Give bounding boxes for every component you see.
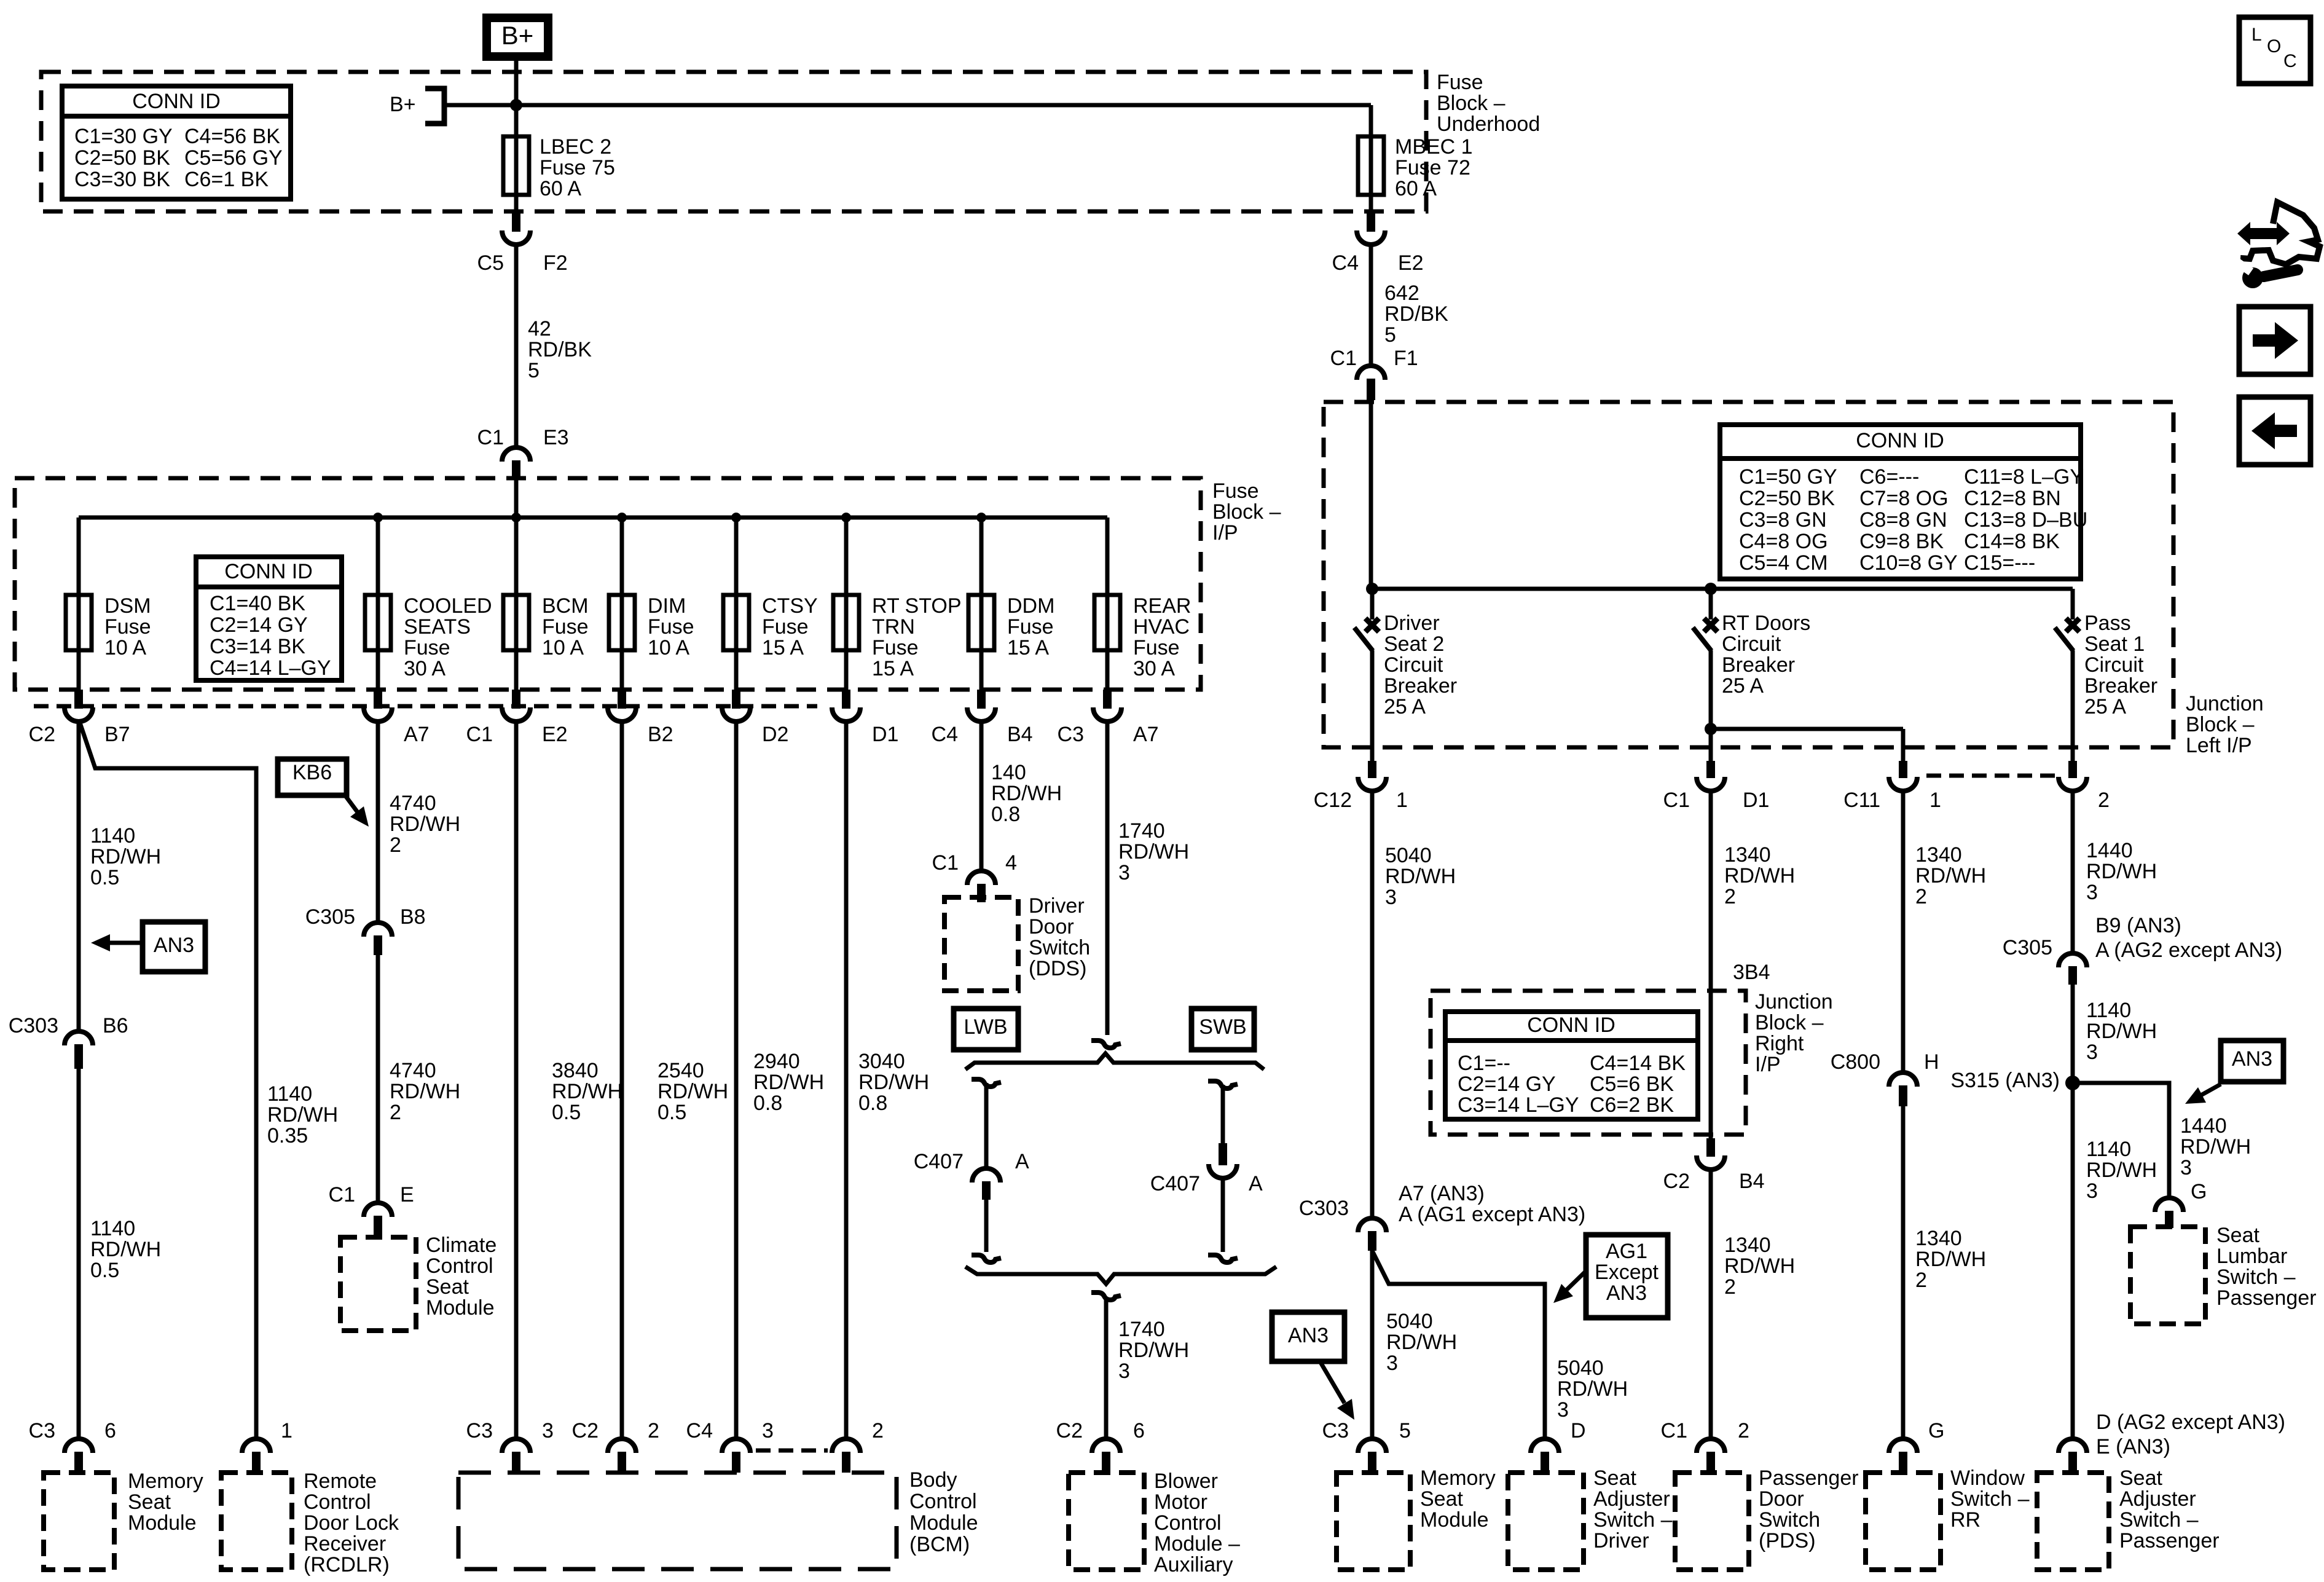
svg-text:2: 2 (872, 1419, 884, 1442)
svg-text:CONN ID: CONN ID (224, 560, 313, 583)
connector C3/5 (memory seat module) (1358, 1439, 1386, 1453)
svg-text:Circuit: Circuit (2084, 653, 2144, 677)
svg-text:Fuse: Fuse (648, 615, 694, 639)
svg-text:Fuse: Fuse (872, 636, 919, 659)
svg-text:2540: 2540 (658, 1059, 704, 1082)
svg-text:Driver: Driver (1593, 1529, 1649, 1552)
svg-text:D2: D2 (762, 723, 788, 746)
svg-text:2: 2 (1724, 885, 1736, 908)
svg-text:I/P: I/P (1755, 1053, 1781, 1076)
svg-text:RR: RR (1950, 1508, 1981, 1532)
connector C5/F2 (502, 230, 530, 245)
svg-text:Door Lock: Door Lock (304, 1511, 399, 1535)
connector C407/A (SWB) (1209, 1164, 1237, 1178)
svg-text:DIM: DIM (648, 594, 686, 618)
svg-text:5040: 5040 (1557, 1356, 1604, 1380)
body/door repair icon with double arrow and wrench (2240, 202, 2320, 264)
wire 1140 RD/WH 3 (2071, 985, 2075, 1083)
wire 3040 RD/WH 0.8 (844, 722, 849, 1439)
Memory Seat Module box (44, 1473, 114, 1570)
connector C303 (A7/A) (1358, 1218, 1386, 1232)
svg-text:Seat: Seat (128, 1490, 171, 1514)
svg-text:1140: 1140 (90, 824, 135, 848)
KB6 arrow (344, 794, 360, 816)
svg-text:Junction: Junction (2186, 692, 2264, 715)
svg-text:4: 4 (1005, 851, 1017, 875)
svg-text:CONN ID: CONN ID (1527, 1013, 1615, 1037)
CONN ID table (Fuse Block - Underhood) (62, 86, 291, 199)
wire 1440 RD/WH 3 (2071, 790, 2075, 954)
svg-text:C1: C1 (1663, 789, 1690, 812)
svg-text:140: 140 (991, 761, 1026, 784)
svg-text:15 A: 15 A (762, 636, 804, 659)
svg-text:C4=14 L–GY: C4=14 L–GY (210, 656, 331, 680)
svg-text:CONN ID: CONN ID (1856, 429, 1944, 452)
svg-text:H: H (1924, 1050, 1939, 1074)
SWB option box (1191, 1009, 1254, 1050)
svg-text:SEATS: SEATS (404, 615, 471, 639)
junction B+/LBEC (510, 99, 522, 111)
LWB merge hook (972, 1255, 1001, 1262)
svg-text:Pass: Pass (2084, 612, 2131, 635)
Fuse Block - I/P dashed box (15, 478, 1201, 690)
svg-text:LWB: LWB (964, 1015, 1007, 1039)
svg-text:C: C (2283, 51, 2297, 71)
fuse block I/P output connector E2 (502, 707, 530, 722)
option split brace (965, 1053, 1264, 1069)
svg-text:E (AN3): E (AN3) (2096, 1435, 2170, 1458)
option merge brace (965, 1267, 1276, 1284)
connector C3/3 (BCM) (502, 1439, 530, 1453)
wire 2540 RD/WH 0.5 (620, 722, 624, 1439)
wire 1740 RD/WH 3 (to blower) (1104, 1298, 1109, 1439)
svg-text:Breaker: Breaker (1722, 653, 1795, 677)
LWB branch hook (972, 1079, 1001, 1087)
svg-text:S315 (AN3): S315 (AN3) (1950, 1069, 2060, 1092)
fuse MBEC 1 (Fuse 72, 60 A) (1358, 136, 1384, 195)
svg-text:RT STOP: RT STOP (872, 594, 962, 618)
svg-text:Passenger: Passenger (2119, 1529, 2220, 1552)
svg-text:60 A: 60 A (540, 177, 581, 200)
svg-text:G: G (2191, 1180, 2207, 1203)
branch to seat lumbar switch (2073, 1083, 2169, 1198)
BCM connector face dashed line (756, 1449, 828, 1453)
Seat Adjuster Switch - Driver box (1508, 1473, 1584, 1570)
SWB branch hook (1208, 1081, 1238, 1088)
fuse LBEC 2 (Fuse 75, 60 A) (503, 136, 529, 195)
svg-text:Door: Door (1029, 915, 1074, 939)
svg-text:I/P: I/P (1212, 521, 1238, 545)
svg-text:RD/WH: RD/WH (858, 1071, 929, 1094)
fuse block I/P output connector D2 (722, 707, 750, 722)
Blower Motor Control Module - Auxiliary box (1069, 1473, 1144, 1570)
svg-text:Seat: Seat (2119, 1466, 2162, 1490)
svg-text:C2: C2 (1663, 1170, 1690, 1193)
wire 1340 RD/WH 2 (lower, PDS) (1709, 1170, 1713, 1439)
Pass Seat 1 Circuit Breaker 25 A (2066, 618, 2079, 632)
svg-text:2: 2 (1724, 1275, 1736, 1299)
svg-text:Fuse: Fuse (1437, 71, 1483, 94)
svg-text:B+: B+ (501, 21, 534, 50)
connector face dashed line (I/P) (34, 704, 817, 709)
svg-text:AN3: AN3 (1606, 1281, 1647, 1305)
wire 642 RD/BK 5 (1369, 243, 1373, 368)
svg-text:Seat: Seat (2216, 1224, 2259, 1247)
svg-text:1340: 1340 (1724, 1234, 1771, 1257)
svg-text:BCM: BCM (542, 594, 589, 618)
svg-text:Switch –: Switch – (2216, 1265, 2296, 1289)
Body Control Module box (458, 1473, 897, 1569)
junction block feed bus (1372, 587, 2073, 591)
svg-text:3: 3 (1118, 1360, 1130, 1383)
svg-text:30 A: 30 A (404, 657, 446, 680)
connector C4/3 (BCM) (722, 1439, 750, 1453)
svg-text:RD/WH: RD/WH (552, 1080, 622, 1103)
AN3 arrow (106, 941, 143, 945)
connector C1/2 (PDS) (1697, 1439, 1725, 1453)
svg-text:5: 5 (1399, 1419, 1411, 1442)
svg-text:Junction: Junction (1755, 990, 1833, 1013)
svg-text:2: 2 (390, 1101, 401, 1124)
fuse block I/P output connector B4 (967, 707, 995, 722)
fuse DDM branch (979, 517, 984, 595)
svg-text:B8: B8 (400, 905, 426, 929)
svg-text:15 A: 15 A (872, 657, 914, 680)
svg-text:Fuse: Fuse (1133, 636, 1180, 659)
svg-text:B2: B2 (648, 723, 673, 746)
svg-text:RD/BK: RD/BK (1384, 302, 1448, 326)
wire 5040 RD/WH 3 (1370, 790, 1375, 1218)
svg-text:3040: 3040 (858, 1050, 905, 1073)
svg-text:5040: 5040 (1385, 844, 1432, 867)
svg-text:E2: E2 (1398, 251, 1424, 275)
svg-text:RD/WH: RD/WH (658, 1080, 728, 1103)
svg-text:Control: Control (304, 1490, 371, 1514)
svg-text:1440: 1440 (2086, 839, 2133, 862)
fuse BCM branch (514, 517, 519, 595)
fuse REAR branch (1105, 517, 1110, 595)
svg-text:Underhood: Underhood (1437, 112, 1540, 136)
CONN ID table (Fuse Block - I/P) (196, 557, 342, 680)
fuse COOLED branch (376, 517, 380, 595)
wire 1340 RD/WH 2 (window switch) (1901, 790, 1906, 1074)
svg-text:RD/WH: RD/WH (390, 813, 460, 836)
wire 1340 RD/WH 2 (lower, window switch) (1901, 1106, 1906, 1439)
RT Doors output junction (1705, 723, 1717, 735)
junction block connector face dashed line (1926, 774, 2057, 778)
AN3 arrow (1320, 1361, 1345, 1403)
svg-text:2: 2 (1915, 1269, 1927, 1292)
svg-text:Seat: Seat (426, 1275, 469, 1299)
svg-text:Switch –: Switch – (1950, 1487, 2030, 1511)
svg-text:3: 3 (1385, 886, 1397, 909)
svg-text:Circuit: Circuit (1384, 653, 1443, 677)
Remote Control Door Lock Receiver box (221, 1473, 292, 1570)
svg-text:642: 642 (1384, 281, 1419, 305)
fuse block I/P output connector D1 (832, 707, 860, 722)
svg-text:42: 42 (528, 317, 551, 340)
SWB branch wire (1221, 1085, 1225, 1151)
svg-text:COOLED: COOLED (404, 594, 492, 618)
svg-text:DDM: DDM (1007, 594, 1054, 618)
connector D/E (seat adjuster passenger) (2059, 1439, 2087, 1453)
connector C2/2 (BCM) (608, 1439, 636, 1453)
connector D (seat adjuster switch driver) (1531, 1439, 1559, 1453)
svg-text:A (AG2 except AN3): A (AG2 except AN3) (2095, 939, 2282, 962)
svg-text:Left I/P: Left I/P (2186, 734, 2252, 757)
svg-text:C2=50 BK: C2=50 BK (1739, 487, 1835, 510)
svg-text:B4: B4 (1007, 723, 1033, 746)
svg-text:C3=8 GN: C3=8 GN (1739, 508, 1827, 532)
svg-text:Driver: Driver (1384, 612, 1440, 635)
svg-text:C4: C4 (932, 723, 958, 746)
svg-text:5040: 5040 (1386, 1310, 1433, 1333)
svg-text:0.5: 0.5 (90, 866, 119, 889)
merge squiggle (1091, 1293, 1121, 1300)
connector C1/D1 (1697, 777, 1725, 791)
svg-text:C2=50 BK: C2=50 BK (74, 146, 170, 170)
connector C11/1 (1889, 777, 1917, 791)
svg-text:1340: 1340 (1724, 843, 1771, 867)
RT Doors Circuit Breaker 25 A (1704, 618, 1717, 632)
connector C1/E3 (502, 447, 530, 462)
fuse RT STOP branch (844, 517, 849, 595)
svg-text:RD/WH: RD/WH (991, 782, 1062, 805)
svg-text:0.5: 0.5 (90, 1259, 119, 1282)
svg-text:0.8: 0.8 (753, 1092, 782, 1115)
svg-text:RD/WH: RD/WH (90, 845, 161, 868)
svg-text:Motor: Motor (1154, 1490, 1207, 1514)
svg-text:C12=8 BN: C12=8 BN (1964, 487, 2061, 510)
svg-text:C3=14 BK: C3=14 BK (210, 635, 305, 658)
connector 2 (BCM) (832, 1439, 860, 1453)
svg-text:C3=14 L–GY: C3=14 L–GY (1458, 1093, 1579, 1117)
connector C1/F1 (1357, 366, 1385, 380)
fuse block I/P output connector A7 (1093, 707, 1121, 722)
fuse DSM branch (77, 517, 81, 595)
connector C407/A (LWB) (972, 1168, 1000, 1183)
svg-text:L: L (2251, 25, 2262, 45)
svg-text:A7 (AN3): A7 (AN3) (1399, 1182, 1485, 1205)
Memory Seat Module box (right) (1337, 1473, 1410, 1570)
svg-text:Fuse 72: Fuse 72 (1395, 156, 1470, 179)
svg-text:RD/WH: RD/WH (1118, 840, 1189, 864)
wire 4740 RD/WH 2 (lower) (376, 954, 380, 1204)
SWB merge hook (1208, 1255, 1238, 1262)
svg-text:A7: A7 (404, 723, 430, 746)
connector 2 (pass seat branch) (2059, 777, 2087, 791)
svg-text:Fuse: Fuse (762, 615, 809, 639)
svg-text:B4: B4 (1739, 1170, 1765, 1193)
svg-text:1340: 1340 (1915, 1227, 1962, 1250)
svg-text:C1=30 GY: C1=30 GY (74, 125, 173, 148)
svg-text:RD/WH: RD/WH (1386, 1331, 1457, 1354)
svg-text:1340: 1340 (1915, 843, 1962, 867)
svg-text:Fuse: Fuse (1007, 615, 1054, 639)
connector C4/E2 (1357, 230, 1385, 245)
CONN ID table (Junction Block - Left I/P) (1720, 425, 2081, 579)
B+ bracket node (425, 89, 444, 124)
svg-text:Module: Module (426, 1296, 495, 1320)
svg-text:3: 3 (1118, 861, 1130, 884)
svg-text:F1: F1 (1394, 347, 1418, 370)
svg-text:C2=14 GY: C2=14 GY (210, 613, 308, 637)
svg-text:RD/WH: RD/WH (1915, 1248, 1986, 1271)
svg-text:60 A: 60 A (1395, 177, 1437, 200)
wire 1140 RD/WH 0.5 (DSM to C303) (77, 722, 81, 1033)
LWB branch wire (984, 1083, 989, 1170)
svg-text:2940: 2940 (753, 1050, 800, 1073)
svg-text:4740: 4740 (390, 1059, 436, 1082)
fuse CTSY branch (734, 517, 739, 595)
fuse block I/P output connector B7 (65, 707, 93, 722)
svg-text:1: 1 (1929, 789, 1941, 812)
I/P feed bus (79, 516, 1107, 520)
svg-text:C5=56 GY: C5=56 GY (184, 146, 283, 170)
svg-text:Circuit: Circuit (1722, 632, 1781, 656)
svg-text:Fuse: Fuse (104, 615, 151, 639)
svg-text:AG1: AG1 (1606, 1240, 1647, 1263)
option split squiggle (1091, 1041, 1121, 1048)
svg-text:Memory: Memory (128, 1470, 203, 1493)
svg-text:C2: C2 (29, 723, 55, 746)
svg-text:D (AG2 except AN3): D (AG2 except AN3) (2096, 1411, 2285, 1434)
svg-text:Adjuster: Adjuster (1593, 1487, 1670, 1511)
svg-text:Block –: Block – (1212, 500, 1281, 524)
svg-text:C11: C11 (1843, 789, 1880, 812)
svg-text:C4=56 BK: C4=56 BK (184, 125, 280, 148)
svg-text:RT Doors: RT Doors (1722, 612, 1810, 635)
svg-text:Receiver: Receiver (304, 1532, 386, 1556)
svg-text:Window: Window (1950, 1466, 2025, 1490)
AG1 Except AN3 reference box (1586, 1235, 1668, 1318)
svg-text:F2: F2 (543, 251, 568, 275)
svg-text:2: 2 (1915, 885, 1927, 908)
svg-text:1140: 1140 (90, 1217, 135, 1240)
wire 42 RD/BK 5 (514, 243, 519, 449)
svg-text:RD/WH: RD/WH (267, 1103, 338, 1127)
svg-text:G: G (1928, 1419, 1944, 1442)
bus junction (617, 513, 627, 522)
svg-text:RD/WH: RD/WH (1724, 1254, 1795, 1278)
svg-text:C3: C3 (466, 1419, 493, 1442)
svg-text:2: 2 (2098, 789, 2110, 812)
wire 1740 RD/WH 3 (1105, 722, 1110, 1035)
svg-text:Passenger: Passenger (1759, 1466, 1859, 1490)
wire 140 RD/WH 0.8 (979, 722, 984, 872)
svg-text:C5: C5 (477, 251, 504, 275)
svg-text:C1: C1 (1661, 1419, 1687, 1442)
svg-text:2: 2 (1738, 1419, 1749, 1442)
bus junction (841, 513, 851, 522)
svg-text:Auxiliary: Auxiliary (1154, 1553, 1233, 1576)
svg-text:C5=4 CM: C5=4 CM (1739, 551, 1828, 575)
svg-text:Seat 2: Seat 2 (1384, 632, 1444, 656)
connector C800/H (1889, 1072, 1917, 1087)
svg-text:Memory: Memory (1420, 1466, 1496, 1490)
svg-text:3840: 3840 (552, 1059, 599, 1082)
svg-text:C3=30 BK: C3=30 BK (74, 168, 170, 191)
svg-text:Control: Control (426, 1254, 493, 1278)
bus junction (976, 513, 986, 522)
svg-text:A7: A7 (1133, 723, 1159, 746)
bus junction (731, 513, 741, 522)
svg-text:C7=8 OG: C7=8 OG (1859, 487, 1949, 510)
svg-text:RD/WH: RD/WH (1118, 1339, 1189, 1362)
fuse block I/P output connector A7 (364, 707, 392, 722)
AN3 reference box (1272, 1312, 1345, 1361)
svg-text:Fuse: Fuse (1212, 479, 1259, 503)
svg-text:DSM: DSM (104, 594, 151, 618)
svg-text:Fuse: Fuse (542, 615, 589, 639)
svg-text:1440: 1440 (2180, 1114, 2227, 1138)
svg-text:Control: Control (1154, 1511, 1222, 1535)
connector 1 (RCDLR) (242, 1439, 270, 1453)
svg-text:3: 3 (762, 1419, 774, 1442)
svg-text:Module: Module (128, 1511, 197, 1535)
svg-text:Seat: Seat (1420, 1487, 1463, 1511)
svg-text:0.8: 0.8 (991, 803, 1020, 826)
svg-text:C6=2 BK: C6=2 BK (1590, 1093, 1674, 1117)
svg-text:C4: C4 (686, 1419, 713, 1442)
svg-text:3: 3 (2180, 1156, 2192, 1179)
svg-text:MBEC 1: MBEC 1 (1395, 135, 1473, 159)
svg-text:C407: C407 (914, 1150, 964, 1173)
AG1 arrow (1566, 1271, 1586, 1291)
svg-text:Switch –: Switch – (1593, 1508, 1673, 1532)
svg-text:4740: 4740 (390, 792, 436, 815)
svg-text:C1: C1 (329, 1183, 355, 1206)
svg-text:3: 3 (542, 1419, 554, 1442)
svg-text:RD/WH: RD/WH (753, 1071, 824, 1094)
svg-text:0.8: 0.8 (858, 1092, 887, 1115)
Seat Lumbar Switch - Passenger box (2130, 1227, 2205, 1324)
connector C12/1 (1358, 777, 1386, 791)
Seat Adjuster Switch - Passenger box (2037, 1473, 2109, 1570)
svg-text:10 A: 10 A (542, 636, 584, 659)
connector C3/6 (memory seat module) (65, 1439, 93, 1453)
svg-text:0.5: 0.5 (658, 1101, 686, 1124)
svg-text:Climate: Climate (426, 1234, 497, 1257)
svg-text:3B4: 3B4 (1733, 961, 1770, 984)
svg-text:LBEC 2: LBEC 2 (540, 135, 611, 159)
svg-text:15 A: 15 A (1007, 636, 1049, 659)
svg-text:C8=8 GN: C8=8 GN (1859, 508, 1947, 532)
svg-text:3: 3 (1557, 1398, 1569, 1422)
svg-text:Blower: Blower (1154, 1470, 1218, 1493)
svg-text:RD/WH: RD/WH (2086, 860, 2157, 883)
svg-text:Right: Right (1755, 1032, 1804, 1055)
svg-text:Module: Module (909, 1511, 978, 1535)
svg-text:3: 3 (2086, 1179, 2098, 1203)
svg-text:C4: C4 (1332, 251, 1359, 275)
Fuse Block - Underhood dashed box (41, 72, 1426, 211)
svg-text:D1: D1 (872, 723, 898, 746)
svg-text:C10=8 GY: C10=8 GY (1859, 551, 1958, 575)
svg-text:B+: B+ (390, 93, 416, 116)
wire 1340 RD/WH 2 (PDS) (1709, 790, 1713, 1139)
svg-text:E: E (400, 1183, 414, 1206)
KB6 reference box (278, 759, 347, 795)
svg-text:A: A (1249, 1172, 1263, 1195)
svg-text:A: A (1015, 1150, 1029, 1173)
svg-text:25 A: 25 A (1722, 674, 1764, 698)
svg-text:B6: B6 (103, 1014, 128, 1037)
connector C2/B4 (1697, 1155, 1725, 1170)
connector G (seat lumbar switch) (2155, 1198, 2183, 1212)
LOC reference box (2239, 17, 2310, 84)
AN3 arrow (right) (2200, 1084, 2221, 1096)
